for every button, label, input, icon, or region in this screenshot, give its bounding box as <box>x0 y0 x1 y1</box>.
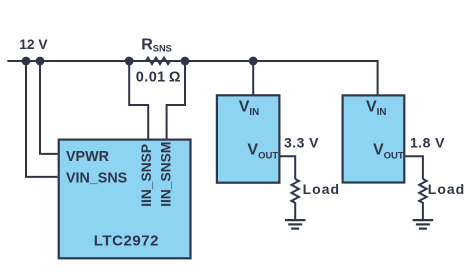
svg-text:Load: Load <box>303 181 340 197</box>
load resistor 1 (vertical zigzag) <box>292 179 299 219</box>
svg-text:Load: Load <box>428 181 465 197</box>
svg-text:12 V: 12 V <box>19 37 48 52</box>
svg-text:3.3 V: 3.3 V <box>284 135 319 151</box>
node junction dot (12V bus, outer drop) <box>22 57 31 66</box>
ground 2 <box>413 220 434 229</box>
wire 12V inner drop to VPWR pin <box>40 61 58 154</box>
svg-text:VIN_SNS: VIN_SNS <box>66 170 127 186</box>
DC-DC converter U2 (body) <box>217 95 280 182</box>
resistor RSNS (zigzag) <box>129 58 185 65</box>
svg-text:0.01 Ω: 0.01 Ω <box>136 70 181 86</box>
node junction dot (U2 VIN tap) <box>249 57 258 66</box>
DC-DC converter U3 (body) <box>343 95 405 182</box>
wire Kelvin sense left (RSNS left terminal to IIN_SNSP pin) <box>129 61 148 139</box>
svg-text:IIN_SNSM: IIN_SNSM <box>158 142 173 207</box>
svg-text:LTC2972: LTC2972 <box>94 233 159 250</box>
svg-text:VPWR: VPWR <box>66 149 110 165</box>
wire 12V outer drop to VIN_SNS pin <box>26 61 58 177</box>
wire U3 VOUT to load 2 <box>405 156 423 179</box>
wire U2 VOUT to load 1 <box>281 156 296 179</box>
wire 12V bus (top horizontal, corner down to U3 VIN) <box>7 61 377 95</box>
svg-text:IIN_SNSP: IIN_SNSP <box>139 144 154 207</box>
wire Kelvin sense right (RSNS right terminal to IIN_SNSM pin) <box>167 61 185 139</box>
IC U1 LTC2972 (body) <box>59 140 191 259</box>
node junction dot (RSNS right terminal) <box>181 57 190 66</box>
node junction dot (RSNS left terminal) <box>125 57 134 66</box>
ground 1 <box>285 220 306 229</box>
wire VIN drop to U2 <box>252 61 254 95</box>
svg-text:1.8 V: 1.8 V <box>410 135 445 151</box>
load resistor 2 (vertical zigzag) <box>419 179 426 219</box>
node junction dot (12V bus, inner drop) <box>36 57 45 66</box>
